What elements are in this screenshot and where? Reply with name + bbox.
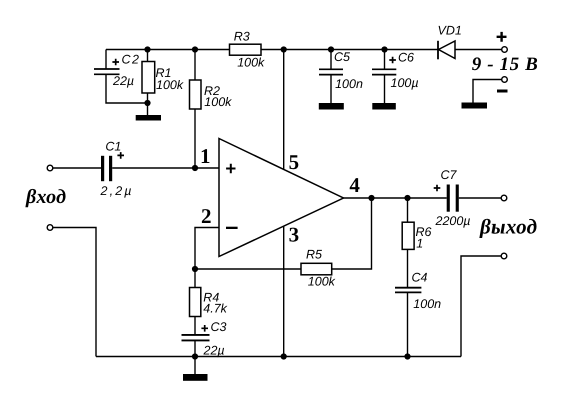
svg-text:22µ: 22µ [203,344,225,358]
svg-text:C7: C7 [441,168,458,182]
svg-text:βыход: βыход [479,215,537,239]
svg-text:C5: C5 [334,50,350,64]
svg-text:2: 2 [201,204,212,228]
svg-text:4.7k: 4.7k [203,302,227,316]
svg-text:9 - 15 В: 9 - 15 В [472,54,538,75]
svg-text:R5: R5 [306,248,322,262]
svg-text:βход: βход [25,186,66,208]
svg-text:4: 4 [349,173,360,197]
svg-text:100k: 100k [204,95,232,109]
svg-text:VD1: VD1 [438,24,462,38]
svg-text:C4: C4 [412,271,428,285]
svg-text:1: 1 [416,237,423,251]
svg-text:3: 3 [289,223,300,247]
svg-text:22µ: 22µ [112,74,134,88]
svg-text:C6: C6 [398,51,414,65]
svg-text:2200µ: 2200µ [435,214,471,228]
svg-text:100n: 100n [335,77,363,91]
svg-text:2,2µ: 2,2µ [100,184,132,198]
svg-text:C1: C1 [105,140,121,154]
svg-text:C3: C3 [211,320,227,334]
svg-text:100µ: 100µ [391,76,419,90]
svg-text:C2: C2 [122,53,140,67]
svg-text:5: 5 [289,150,300,174]
svg-text:100k: 100k [156,78,184,92]
svg-text:100k: 100k [308,275,336,289]
svg-text:1: 1 [200,144,211,168]
svg-text:R3: R3 [234,30,250,44]
svg-text:100k: 100k [237,56,265,70]
svg-text:100n: 100n [413,297,441,311]
